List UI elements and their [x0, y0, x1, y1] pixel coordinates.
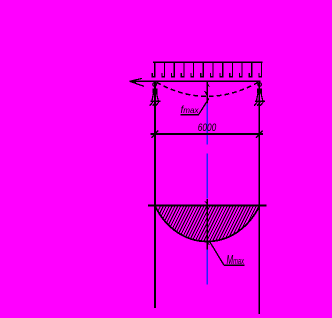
- cable sag dashed curve: [157, 82, 259, 96]
- svg-text:6000: 6000: [198, 122, 217, 134]
- moment diagram curve M(x): [155, 206, 260, 242]
- thrust force arrow H (left): [130, 78, 145, 86]
- Mmax leader line: [210, 242, 224, 265]
- chord line between supports: [130, 80, 261, 82]
- fmax leader line: [199, 99, 209, 115]
- moment diagram hatching: [139, 204, 280, 249]
- dimension tick right: [256, 131, 263, 138]
- support B (right pin): [254, 83, 265, 106]
- distributed load q arrows: [152, 62, 261, 77]
- dimension tick left: [152, 131, 159, 138]
- distributed load q top line: [153, 61, 262, 63]
- right extension line: [258, 82, 260, 314]
- moment diagram baseline: [148, 205, 267, 207]
- Mmax ordinate line: [206, 199, 208, 250]
- left extension line: [154, 82, 156, 308]
- fmax arrowheads: [204, 91, 207, 97]
- support A (left pin): [150, 83, 161, 106]
- Mmax arrowheads: [205, 201, 208, 205]
- centerline (blue axis): [206, 104, 208, 285]
- dimension line 6000: [151, 133, 264, 135]
- fmax ordinate line: [206, 82, 208, 104]
